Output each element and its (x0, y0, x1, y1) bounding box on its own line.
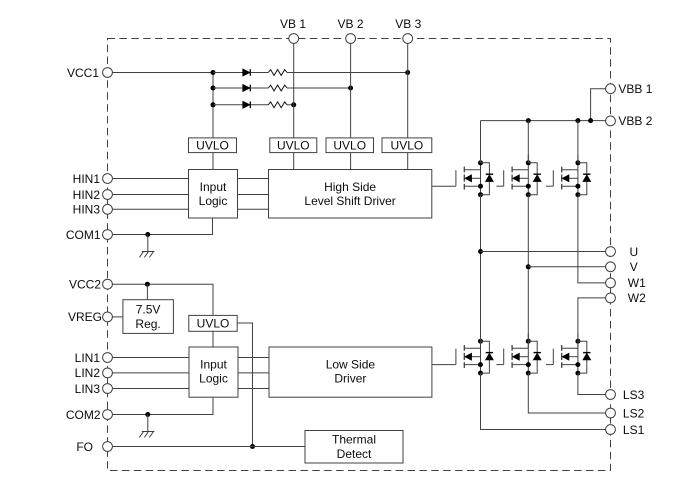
svg-text:Thermal: Thermal (332, 433, 376, 447)
svg-text:FO: FO (76, 440, 93, 454)
UVLO block U2 (270, 138, 317, 153)
wire rail to Q3 drain (577, 121, 579, 163)
junction row3 (211, 102, 216, 107)
pin COM2 (66, 408, 113, 422)
pin HIN2 (73, 188, 113, 202)
svg-text:VCC1: VCC1 (67, 66, 99, 80)
svg-text:Reg.: Reg. (135, 317, 160, 331)
svg-text:COM2: COM2 (66, 408, 101, 422)
pin W2 (606, 291, 647, 305)
diode D3 + resistor R3 (bootstrap row 3) (213, 102, 294, 109)
svg-text:COM1: COM1 (66, 228, 101, 242)
pin FO (76, 440, 112, 454)
pin LIN2 (75, 366, 113, 380)
UVLO block U4 (382, 138, 432, 153)
Thermal Detect block (305, 431, 403, 464)
pin VCC1 (67, 66, 112, 80)
svg-text:VREG: VREG (68, 310, 102, 324)
svg-text:High Side: High Side (324, 180, 376, 194)
wire COM1 row (112, 218, 212, 235)
junction COM1 / ground (145, 232, 150, 237)
wire COM2 row (112, 397, 213, 414)
wire gate stub Q3 (546, 185, 553, 187)
pin COM1 (66, 228, 113, 242)
svg-text:Input: Input (200, 357, 227, 371)
wire HIN1 row (112, 178, 268, 180)
Input Logic block (low side) (189, 347, 238, 397)
svg-text:VBB 2: VBB 2 (618, 114, 652, 128)
wire rail to Q2 drain (527, 121, 529, 163)
ground symbol (COM1) (139, 235, 154, 258)
wire VBB1 jog (591, 89, 606, 121)
ground symbol (COM2) (139, 415, 154, 438)
pin LS2 (606, 406, 645, 420)
junction row2 / VB2 (348, 86, 353, 91)
wire VREG row (112, 316, 123, 318)
Input Logic block (high side) (189, 170, 238, 219)
High Side Level Shift Driver block (269, 170, 432, 219)
wire Low Side driver gate lead Q4 (432, 364, 456, 366)
diode D2 + resistor R2 (bootstrap row 2) (213, 85, 351, 92)
wire UVLO4 to High Side driver (407, 153, 409, 170)
junction VCC1/row1 (211, 70, 216, 75)
svg-text:VB 2: VB 2 (337, 17, 363, 31)
IC boundary (dashed package outline) (108, 39, 611, 471)
Low Side Driver block (269, 347, 432, 397)
svg-text:Input: Input (200, 180, 227, 194)
pin VB3 (395, 17, 421, 43)
svg-text:UVLO: UVLO (277, 139, 310, 153)
body diode of Q2 (528, 163, 541, 195)
pin V (606, 260, 638, 274)
svg-text:Detect: Detect (337, 447, 372, 461)
svg-text:Level Shift Driver: Level Shift Driver (304, 194, 395, 208)
junction phase U (478, 249, 483, 254)
body diode of Q3 (578, 163, 591, 195)
7.5V Reg block (123, 300, 173, 334)
svg-text:Driver: Driver (334, 372, 366, 386)
wire gate stub Q5 (496, 364, 503, 366)
svg-text:LS2: LS2 (623, 406, 645, 420)
svg-text:7.5V: 7.5V (136, 303, 161, 317)
wire LIN3 row (112, 388, 268, 390)
transistor Q2 (high side phase V) (504, 155, 531, 197)
svg-text:LIN2: LIN2 (75, 366, 101, 380)
pin LIN1 (75, 351, 113, 365)
svg-text:LS1: LS1 (623, 423, 645, 437)
wire V row (528, 266, 606, 268)
svg-text:LIN1: LIN1 (75, 351, 101, 365)
wire bootstrap feed vertical at x=213 (212, 73, 214, 138)
wire HIN2 row (112, 194, 268, 196)
pin U (606, 245, 639, 259)
wire UVLO3 to High Side driver (350, 153, 352, 170)
svg-text:Low Side: Low Side (326, 357, 376, 371)
svg-text:HIN1: HIN1 (73, 172, 101, 186)
wire UVLO5 output to FO line (237, 323, 252, 447)
pin VBB1 (606, 82, 653, 96)
junction COM2 / ground (145, 412, 150, 417)
wire LIN2 row (112, 372, 268, 374)
wire U row (481, 251, 606, 253)
body diode of Q4 (481, 341, 494, 373)
UVLO block U5 (189, 315, 237, 331)
pin HIN1 (73, 172, 113, 186)
svg-text:W2: W2 (628, 291, 646, 305)
svg-text:UVLO: UVLO (333, 139, 366, 153)
wire VCC1 row (pin to junction) (112, 72, 213, 74)
wire gate stub Q2 (496, 185, 503, 187)
wire HIN3 row (112, 208, 268, 210)
wire W1 row (Q3 source) (578, 195, 606, 283)
wire VB1 vertical (293, 43, 295, 138)
wire W2 row (Q6 drain) (578, 298, 606, 348)
wire regulator branch vertical (146, 284, 148, 300)
wire UVLO2 to High Side driver (293, 153, 295, 170)
body diode of Q1 (481, 163, 494, 195)
transistor Q1 (high side phase U) (456, 155, 483, 197)
wire VCC2 row (112, 284, 213, 315)
wire FO row (112, 446, 305, 448)
junction rail / Q3 drain (575, 118, 580, 123)
junction VCC2 / regulator branch (145, 282, 150, 287)
pin VB2 (337, 17, 363, 43)
svg-text:VB 3: VB 3 (395, 17, 421, 31)
body diode of Q5 (528, 341, 541, 373)
wire VB2 vertical (350, 43, 352, 138)
svg-text:VCC2: VCC2 (69, 278, 101, 292)
junction rail / Q2 drain (526, 118, 531, 123)
pin VB1 (280, 17, 306, 43)
wire gate stub Q6 (546, 364, 553, 366)
svg-text:HIN2: HIN2 (73, 188, 101, 202)
wire UVLO5 to Input Logic 2 (212, 331, 214, 347)
transistor Q4 (low side phase U) (456, 333, 483, 375)
pin W1 (606, 276, 647, 290)
wire VBB positive rail (481, 120, 606, 122)
svg-text:UVLO: UVLO (196, 139, 229, 153)
pin VCC2 (69, 278, 112, 292)
UVLO block U3 (326, 138, 374, 153)
junction FO / UVLO5 (250, 444, 255, 449)
junction rail / VBB1 (588, 118, 593, 123)
pin LS3 (606, 388, 645, 402)
svg-text:Logic: Logic (199, 194, 228, 208)
transistor Q6 (low side phase W) (553, 333, 580, 375)
wire LS3 row (Q6 source) (578, 373, 606, 394)
UVLO block U1 (189, 138, 237, 153)
pin VBB2 (606, 114, 653, 128)
svg-text:VB 1: VB 1 (280, 17, 306, 31)
svg-text:LS3: LS3 (623, 388, 645, 402)
pin HIN3 (73, 203, 113, 217)
junction phase V (526, 264, 531, 269)
junction row1 / VB3 (405, 70, 410, 75)
svg-text:Logic: Logic (199, 372, 228, 386)
body diode of Q6 (578, 341, 591, 373)
svg-text:UVLO: UVLO (391, 139, 424, 153)
wire LS1 row (Q4 source) (481, 373, 606, 429)
svg-text:LIN3: LIN3 (75, 382, 101, 396)
transistor Q5 (low side phase V) (504, 333, 531, 375)
wire phase V vertical (Q2 source to Q5 drain) (527, 195, 529, 348)
svg-text:HIN3: HIN3 (73, 203, 101, 217)
wire phase U vertical (Q1 source to Q4 drain) (480, 195, 482, 348)
wire UVLO1 to Input Logic (212, 153, 214, 170)
svg-text:V: V (630, 260, 638, 274)
wire LS2 row (Q5 source) (528, 373, 606, 413)
svg-text:W1: W1 (628, 276, 646, 290)
pin LIN3 (75, 382, 113, 396)
pin LS1 (606, 423, 645, 437)
transistor Q3 (high side phase W) (553, 155, 580, 197)
junction row3 / VB1 (291, 102, 296, 107)
junction row2 (211, 86, 216, 91)
wire LIN1 row (112, 357, 268, 359)
wire High Side driver gate lead Q1 (432, 185, 456, 187)
svg-text:U: U (630, 245, 639, 259)
wire VB3 vertical (407, 43, 409, 138)
svg-text:VBB 1: VBB 1 (618, 82, 652, 96)
wire rail to Q1 drain (480, 121, 482, 163)
svg-text:UVLO: UVLO (197, 317, 230, 331)
pin VREG (68, 310, 112, 324)
diode D1 + resistor R1 (bootstrap row 1) (213, 69, 408, 76)
